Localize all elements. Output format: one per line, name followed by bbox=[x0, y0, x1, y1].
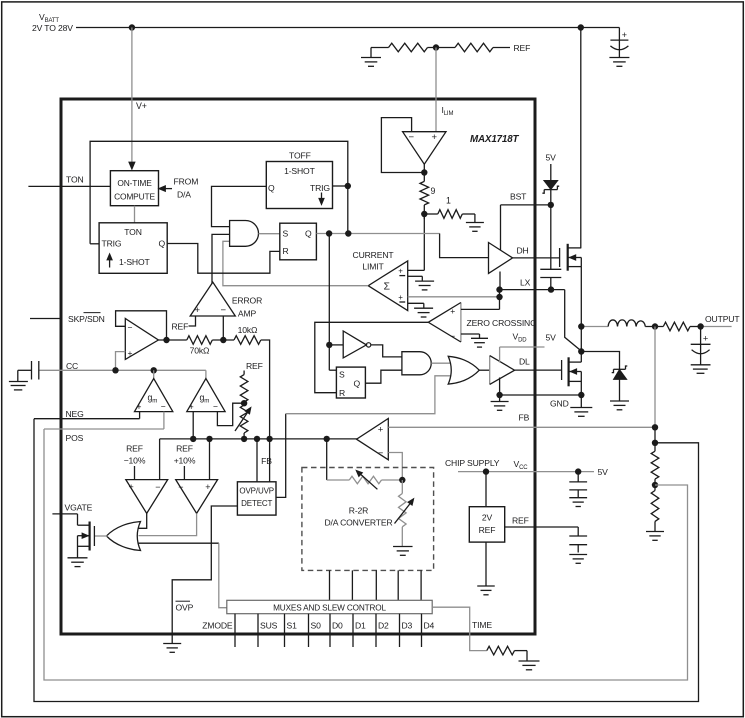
svg-text:10kΩ: 10kΩ bbox=[238, 325, 258, 335]
wire current limit LX sense bbox=[408, 296, 500, 298]
ground divider bbox=[646, 532, 664, 541]
junction resistor 9/1 node bbox=[421, 205, 427, 219]
wire OR2 to DL driver bbox=[479, 369, 490, 371]
diode BST 5V bbox=[542, 164, 559, 205]
wire trigger loop bbox=[90, 141, 348, 244]
label 5V vcc bbox=[598, 467, 609, 477]
svg-text:REF: REF bbox=[172, 322, 189, 332]
comparator SKP bbox=[125, 319, 158, 360]
comparator FB slew bbox=[357, 419, 389, 460]
svg-text:−: − bbox=[161, 401, 166, 411]
pin POS label bbox=[66, 433, 84, 443]
svg-text:REF: REF bbox=[126, 444, 143, 454]
capacitor CC bbox=[32, 361, 39, 380]
wire OVP detect to OR2 bbox=[276, 376, 451, 498]
amplifier gm2 bbox=[187, 379, 225, 412]
junction VCC to 2V REF bbox=[483, 468, 489, 474]
wire LX bbox=[500, 289, 565, 291]
ground CC cap bbox=[9, 370, 32, 390]
svg-text:2V: 2V bbox=[482, 513, 493, 523]
wire SKP plus from CC bbox=[116, 352, 126, 371]
junction bus gm2 bbox=[190, 436, 196, 442]
wire ILIM buffer feedback bbox=[381, 118, 424, 173]
resistor divider upper bbox=[651, 451, 659, 479]
wire REF+10pct plus to bus bbox=[209, 439, 211, 480]
pin D2 bbox=[376, 614, 389, 647]
svg-text:Q: Q bbox=[354, 379, 361, 389]
buffer DL driver bbox=[490, 356, 515, 385]
svg-text:−: − bbox=[155, 482, 160, 492]
wire VBATT to high-side drain bbox=[580, 28, 582, 248]
resistor output sense bbox=[663, 322, 690, 331]
pin VGATE label bbox=[65, 503, 93, 513]
wire DL driver return bbox=[499, 378, 501, 402]
label MAX1718T bbox=[470, 134, 520, 145]
wire trigger into TON one-shot bbox=[90, 243, 99, 245]
svg-text:+: + bbox=[450, 306, 455, 316]
wire LX jog bbox=[565, 290, 582, 351]
label REF divider bbox=[246, 361, 263, 371]
wire Q1 to inverter and S2 bbox=[329, 234, 336, 371]
junction Q1 to low-side logic bbox=[326, 230, 332, 236]
wire inductor to sense bbox=[645, 326, 663, 328]
wire DL bbox=[515, 369, 562, 371]
svg-text:CURRENT: CURRENT bbox=[353, 250, 395, 260]
wire zero crossing output to R2 bbox=[315, 322, 429, 392]
svg-text:1-SHOT: 1-SHOT bbox=[284, 166, 316, 176]
ground TIME bbox=[515, 651, 540, 670]
svg-text:Q: Q bbox=[268, 183, 275, 193]
wire TOFF Q to AND gate bbox=[212, 186, 267, 226]
junction OUTPUT node bbox=[697, 323, 703, 329]
pin SKP/SDN label bbox=[68, 313, 105, 324]
capacitor VBATT input bbox=[610, 28, 628, 58]
pin S1 bbox=[285, 614, 298, 647]
wire POS loop bbox=[44, 429, 688, 680]
ground current limit lower bbox=[414, 308, 433, 317]
ground 2V REF bbox=[477, 586, 495, 595]
block ON-TIME COMPUTE bbox=[110, 171, 158, 206]
pin CC label bbox=[66, 361, 78, 371]
svg-text:TRIG: TRIG bbox=[102, 239, 122, 249]
junction TOFF trigger node bbox=[345, 183, 351, 189]
svg-text:D0: D0 bbox=[332, 621, 343, 631]
svg-text:70kΩ: 70kΩ bbox=[190, 346, 210, 356]
comparator REF+10pct bbox=[176, 466, 218, 513]
svg-text:D3: D3 bbox=[402, 621, 413, 631]
ground current limit upper bbox=[415, 281, 434, 290]
svg-text:VGATE: VGATE bbox=[65, 503, 93, 513]
svg-text:REF: REF bbox=[479, 525, 496, 535]
wire CC to gm2 output bbox=[205, 370, 207, 378]
wire OVP detect to OVP pin bbox=[172, 506, 237, 643]
svg-text:+: + bbox=[189, 401, 194, 411]
junction REF wiper node bbox=[241, 400, 247, 406]
block MUXES AND SLEW CONTROL bbox=[227, 600, 432, 613]
pin D0 bbox=[330, 614, 343, 647]
label CURRENT LIMIT bbox=[353, 250, 395, 272]
junction GND internal bbox=[496, 392, 502, 398]
wire FB bus bbox=[160, 438, 358, 440]
wire DH driver return bbox=[499, 272, 501, 290]
ground DAC bbox=[393, 547, 413, 556]
svg-text:ZMODE: ZMODE bbox=[202, 621, 233, 631]
svg-text:+: + bbox=[622, 30, 627, 40]
ground schottky bbox=[610, 401, 629, 410]
wire CC line bbox=[39, 369, 206, 371]
svg-text:BST: BST bbox=[510, 192, 527, 202]
label REF top bbox=[514, 43, 531, 53]
wire TOFF TRIG bbox=[333, 185, 348, 187]
IC boundary MAX1718T bbox=[61, 99, 535, 634]
pin D1 bbox=[353, 614, 366, 647]
svg-text:REF: REF bbox=[246, 361, 263, 371]
junction bus REF+10pct bbox=[206, 436, 212, 442]
junction SKP output bbox=[158, 337, 186, 343]
svg-text:+: + bbox=[195, 305, 201, 316]
transistor low-side fet bbox=[562, 352, 582, 396]
svg-text:REF: REF bbox=[176, 444, 193, 454]
svg-text:−: − bbox=[450, 331, 455, 341]
svg-text:R: R bbox=[339, 388, 345, 398]
wire lx to inductor bbox=[581, 326, 608, 328]
wire NEG line bbox=[34, 412, 140, 419]
svg-text:+10%: +10% bbox=[174, 456, 196, 466]
amplifier gm1 bbox=[135, 379, 173, 412]
wire mux enable line bbox=[139, 543, 227, 608]
wire LX to current-limit sense bbox=[499, 290, 501, 310]
wire gm1 output stub bbox=[153, 370, 155, 378]
svg-text:TRIG: TRIG bbox=[310, 183, 330, 193]
pin SUS bbox=[258, 614, 278, 647]
junction NEG loop tap bbox=[652, 440, 658, 446]
wire bus to REF-10pct minus bbox=[159, 439, 161, 480]
wire to OUTPUT bbox=[690, 326, 732, 328]
wire REF to error amp plus bbox=[189, 316, 196, 326]
block 2V REF bbox=[469, 507, 504, 542]
pin ILIM label bbox=[442, 105, 454, 117]
arrow TOFF trigger edge bbox=[319, 193, 324, 205]
svg-text:+: + bbox=[205, 482, 210, 492]
svg-text:5V: 5V bbox=[598, 467, 609, 477]
junction bus REF pot bbox=[241, 436, 247, 442]
wire TIME from muxes bbox=[432, 607, 487, 650]
op-amp ILIM buffer bbox=[403, 132, 446, 165]
wire BST bbox=[501, 205, 551, 250]
resistor 10k bbox=[234, 325, 261, 344]
wire VBATT rail bbox=[76, 27, 619, 29]
potentiometer DAC vertical bbox=[395, 480, 414, 547]
svg-text:D1: D1 bbox=[355, 621, 366, 631]
svg-text:OUTPUT: OUTPUT bbox=[705, 314, 740, 324]
label FROM D/A with arrow bbox=[159, 177, 199, 200]
junction VCC cap bbox=[575, 468, 581, 474]
block TOFF one-shot bbox=[266, 162, 332, 209]
wire FB comparator plus bbox=[388, 426, 655, 428]
svg-text:CHIP SUPPLY: CHIP SUPPLY bbox=[445, 458, 500, 468]
label TOFF bbox=[289, 150, 311, 160]
pin D4 bbox=[422, 614, 435, 647]
svg-text:Σ: Σ bbox=[384, 281, 391, 293]
label ZERO CROSSING bbox=[467, 318, 538, 328]
comparator current limit bbox=[368, 261, 408, 311]
label ERROR AMP bbox=[232, 296, 262, 319]
pin TON stub bbox=[28, 185, 61, 187]
ground VCC cap bbox=[569, 498, 587, 507]
resistor 1 bbox=[424, 196, 462, 219]
ground VGATE fet bbox=[68, 558, 88, 567]
svg-text:+: + bbox=[703, 334, 708, 344]
svg-text:S1: S1 bbox=[287, 621, 298, 631]
svg-text:R: R bbox=[283, 246, 289, 256]
junction DAC wiper bbox=[399, 477, 405, 483]
wire V+ feed with arrow bbox=[129, 28, 135, 170]
wire VCC bbox=[458, 471, 594, 473]
resistor TIME bbox=[487, 646, 515, 655]
pin LX label bbox=[520, 278, 531, 288]
svg-text:COMPUTE: COMPUTE bbox=[114, 192, 155, 202]
wire DH bbox=[513, 257, 560, 259]
pin FB label bbox=[519, 413, 530, 423]
svg-text:DL: DL bbox=[519, 357, 530, 367]
ground output cap bbox=[691, 365, 711, 374]
svg-text:ERROR: ERROR bbox=[232, 296, 262, 306]
junction ILIM node bbox=[428, 44, 456, 50]
wire TON Q to R input bbox=[167, 244, 280, 274]
svg-text:9: 9 bbox=[431, 186, 436, 196]
junction VBATT to high-side drain bbox=[578, 24, 584, 30]
svg-text:OVP: OVP bbox=[176, 603, 194, 613]
resistor ILIM to REF bbox=[455, 43, 510, 52]
gate OR1 bbox=[107, 522, 141, 551]
svg-text:REF: REF bbox=[514, 43, 531, 53]
label OUTPUT bbox=[705, 314, 740, 324]
gate AND2 bbox=[402, 352, 431, 375]
svg-text:D/A CONVERTER: D/A CONVERTER bbox=[324, 518, 392, 528]
svg-text:V+: V+ bbox=[136, 101, 147, 111]
wire error amp minus bbox=[222, 316, 224, 340]
wire 10k to FB bus bbox=[261, 340, 270, 439]
svg-text:Q: Q bbox=[305, 229, 312, 239]
diode schottky freewheel bbox=[581, 352, 627, 401]
svg-text:−: − bbox=[409, 132, 415, 143]
svg-text:+: + bbox=[128, 348, 133, 358]
junction FB tap bbox=[652, 424, 658, 430]
svg-text:−: − bbox=[213, 401, 218, 411]
junction bus OVP detect left bbox=[254, 436, 260, 442]
capacitor BST bbox=[540, 205, 561, 290]
latch SR1 bbox=[280, 223, 317, 260]
svg-text:ZERO CROSSING: ZERO CROSSING bbox=[467, 318, 538, 328]
label CHIP SUPPLY bbox=[445, 458, 500, 468]
block R-2R DAC boundary bbox=[302, 468, 434, 571]
svg-text:REF: REF bbox=[512, 516, 529, 526]
pin NEG label bbox=[66, 409, 85, 419]
svg-text:R-2R: R-2R bbox=[349, 506, 368, 516]
ground DL driver bbox=[491, 402, 509, 411]
resistor 9 bbox=[420, 176, 436, 205]
svg-text:SKP/SDN: SKP/SDN bbox=[68, 314, 105, 324]
svg-text:GND: GND bbox=[550, 399, 569, 409]
junction LX bst-cap bbox=[548, 286, 554, 292]
pin REF label bbox=[512, 516, 529, 526]
pin VGATE stub bbox=[52, 513, 77, 515]
junction Q1 to trigger node bbox=[345, 230, 351, 236]
label R-2R DAC bbox=[324, 506, 392, 528]
svg-text:POS: POS bbox=[66, 433, 84, 443]
svg-text:5V: 5V bbox=[546, 333, 557, 343]
svg-text:TIME: TIME bbox=[472, 620, 492, 630]
wire VDD stub bbox=[500, 347, 545, 363]
arrow TON trigger edge bbox=[107, 254, 112, 268]
pin VDD label bbox=[513, 332, 528, 344]
svg-text:D4: D4 bbox=[424, 621, 435, 631]
label REF +10pct bbox=[174, 444, 196, 466]
junction CC to gm1 bbox=[151, 367, 157, 373]
svg-text:LX: LX bbox=[520, 278, 531, 288]
svg-text:5V: 5V bbox=[546, 153, 557, 163]
capacitor VCC bypass bbox=[569, 472, 587, 498]
comparator REF-10pct bbox=[126, 466, 168, 513]
svg-text:−: − bbox=[221, 305, 227, 316]
potentiometer REF lower bbox=[235, 405, 251, 439]
transistor high-side fet bbox=[560, 244, 582, 271]
wire ILIM node to current limit comparator bbox=[408, 214, 425, 270]
svg-text:TOFF: TOFF bbox=[289, 150, 311, 160]
ground GND external bbox=[570, 395, 592, 416]
wire NEG loop bbox=[34, 419, 699, 702]
junction bus FB bbox=[266, 436, 272, 442]
wire FB comparator minus bbox=[388, 453, 402, 481]
block TON one-shot bbox=[99, 223, 167, 273]
ground VBATT cap bbox=[609, 58, 629, 67]
wire ILIM buffer output bbox=[423, 164, 425, 176]
transistor VGATE fet bbox=[78, 514, 95, 558]
wire current limit lower minus to ground bbox=[408, 303, 424, 308]
svg-text:D2: D2 bbox=[378, 621, 389, 631]
wire gm2 minus to REF divider bbox=[217, 403, 244, 425]
wire DAC data stubs bbox=[330, 570, 422, 600]
wire bus to OVP detect left bbox=[256, 439, 258, 482]
label 5V vdd bbox=[546, 333, 557, 343]
svg-text:+: + bbox=[378, 425, 384, 436]
svg-text:1: 1 bbox=[446, 196, 451, 206]
pin S0 bbox=[309, 614, 322, 647]
svg-text:TON: TON bbox=[124, 227, 142, 237]
svg-text:D/A: D/A bbox=[177, 190, 191, 200]
svg-text:S: S bbox=[283, 229, 289, 239]
svg-text:−10%: −10% bbox=[124, 456, 146, 466]
wire FB to OVP detect bbox=[269, 439, 271, 482]
wire OR1 output to VGATE fet bbox=[94, 535, 107, 537]
junction GND external bbox=[578, 392, 584, 398]
wire SKP feedback bbox=[116, 311, 167, 340]
pin DH label bbox=[517, 246, 529, 256]
node VBATT label bbox=[32, 12, 73, 33]
svg-text:FB: FB bbox=[519, 413, 530, 423]
wire zero crossing minus to ground bbox=[461, 334, 480, 338]
resistor REF upper bbox=[240, 371, 248, 403]
svg-text:+: + bbox=[398, 267, 403, 276]
svg-text:−: − bbox=[378, 448, 384, 459]
wire LX to zero crossing bbox=[461, 308, 500, 310]
pin VCC label bbox=[514, 459, 529, 471]
wire REF-10pct output to OR gate bbox=[139, 513, 147, 528]
ground zero crossing bbox=[471, 338, 488, 347]
wire on-time compute to TON one-shot bbox=[134, 206, 136, 223]
wire AND1 output bbox=[259, 233, 280, 235]
svg-text:−: − bbox=[128, 322, 133, 332]
junction bus DAC bbox=[324, 436, 330, 442]
pin ZMODE bbox=[202, 614, 235, 647]
junction CC to SKP bbox=[112, 367, 118, 373]
pin TIME label bbox=[472, 620, 492, 630]
svg-text:+: + bbox=[432, 132, 438, 143]
junction output divider tap bbox=[652, 323, 658, 329]
wire inverter to AND2 bbox=[371, 345, 402, 357]
svg-text:ON-TIME: ON-TIME bbox=[117, 178, 152, 188]
junction BST node bbox=[548, 202, 554, 208]
resistor 70k bbox=[187, 336, 213, 356]
pin DL label bbox=[519, 357, 530, 367]
svg-text:−: − bbox=[178, 482, 183, 492]
inductor output bbox=[608, 320, 645, 327]
pin GND label bbox=[550, 399, 569, 409]
junction divider mid bbox=[652, 479, 658, 490]
label REF -10pct bbox=[124, 444, 146, 466]
wire error amp to AND gate bbox=[212, 234, 230, 283]
svg-text:NEG: NEG bbox=[66, 409, 85, 419]
svg-text:+: + bbox=[398, 293, 403, 302]
svg-text:DH: DH bbox=[517, 246, 529, 256]
pin V+ label bbox=[136, 101, 147, 111]
wire Q1 to DH driver bbox=[440, 234, 489, 258]
buffer DH driver bbox=[489, 243, 513, 274]
junction LX to driver return bbox=[496, 286, 502, 292]
svg-text:2V TO 28V: 2V TO 28V bbox=[32, 23, 73, 33]
wire Q2 to AND2 bbox=[365, 370, 402, 383]
wire REF out bbox=[505, 527, 579, 536]
svg-text:DETECT: DETECT bbox=[241, 499, 272, 508]
svg-text:FB: FB bbox=[261, 456, 272, 466]
svg-text:MAX1718T: MAX1718T bbox=[470, 134, 520, 145]
svg-text:1-SHOT: 1-SHOT bbox=[119, 257, 151, 267]
svg-text:S: S bbox=[339, 370, 345, 380]
wire TON to on-time compute bbox=[61, 185, 110, 187]
junction inverter input bbox=[326, 342, 343, 348]
pin D3 bbox=[400, 614, 413, 647]
gate inverter bbox=[343, 331, 371, 358]
svg-text:S0: S0 bbox=[311, 621, 322, 631]
wire ILIM sense bbox=[435, 48, 437, 132]
wire bus to DAC pot bbox=[327, 439, 350, 480]
gate OR2 bbox=[448, 356, 479, 384]
svg-text:MUXES AND SLEW CONTROL: MUXES AND SLEW CONTROL bbox=[273, 603, 386, 612]
comparator zero crossing bbox=[428, 303, 461, 343]
junction LX sense tap bbox=[496, 294, 502, 300]
ground OVP pin bbox=[163, 644, 181, 653]
capacitor output bbox=[691, 327, 711, 365]
junction VBATT to V+ bbox=[129, 24, 135, 30]
wire trigger node to Q line bbox=[347, 186, 349, 234]
resistor ILIM upper bbox=[389, 43, 428, 52]
pin BST label bbox=[510, 192, 527, 202]
label FB internal bbox=[261, 456, 272, 466]
label REF error amp bbox=[172, 322, 189, 332]
svg-text:AMP: AMP bbox=[238, 309, 257, 319]
svg-text:Q: Q bbox=[159, 239, 166, 249]
pin OVP label bbox=[176, 601, 194, 612]
